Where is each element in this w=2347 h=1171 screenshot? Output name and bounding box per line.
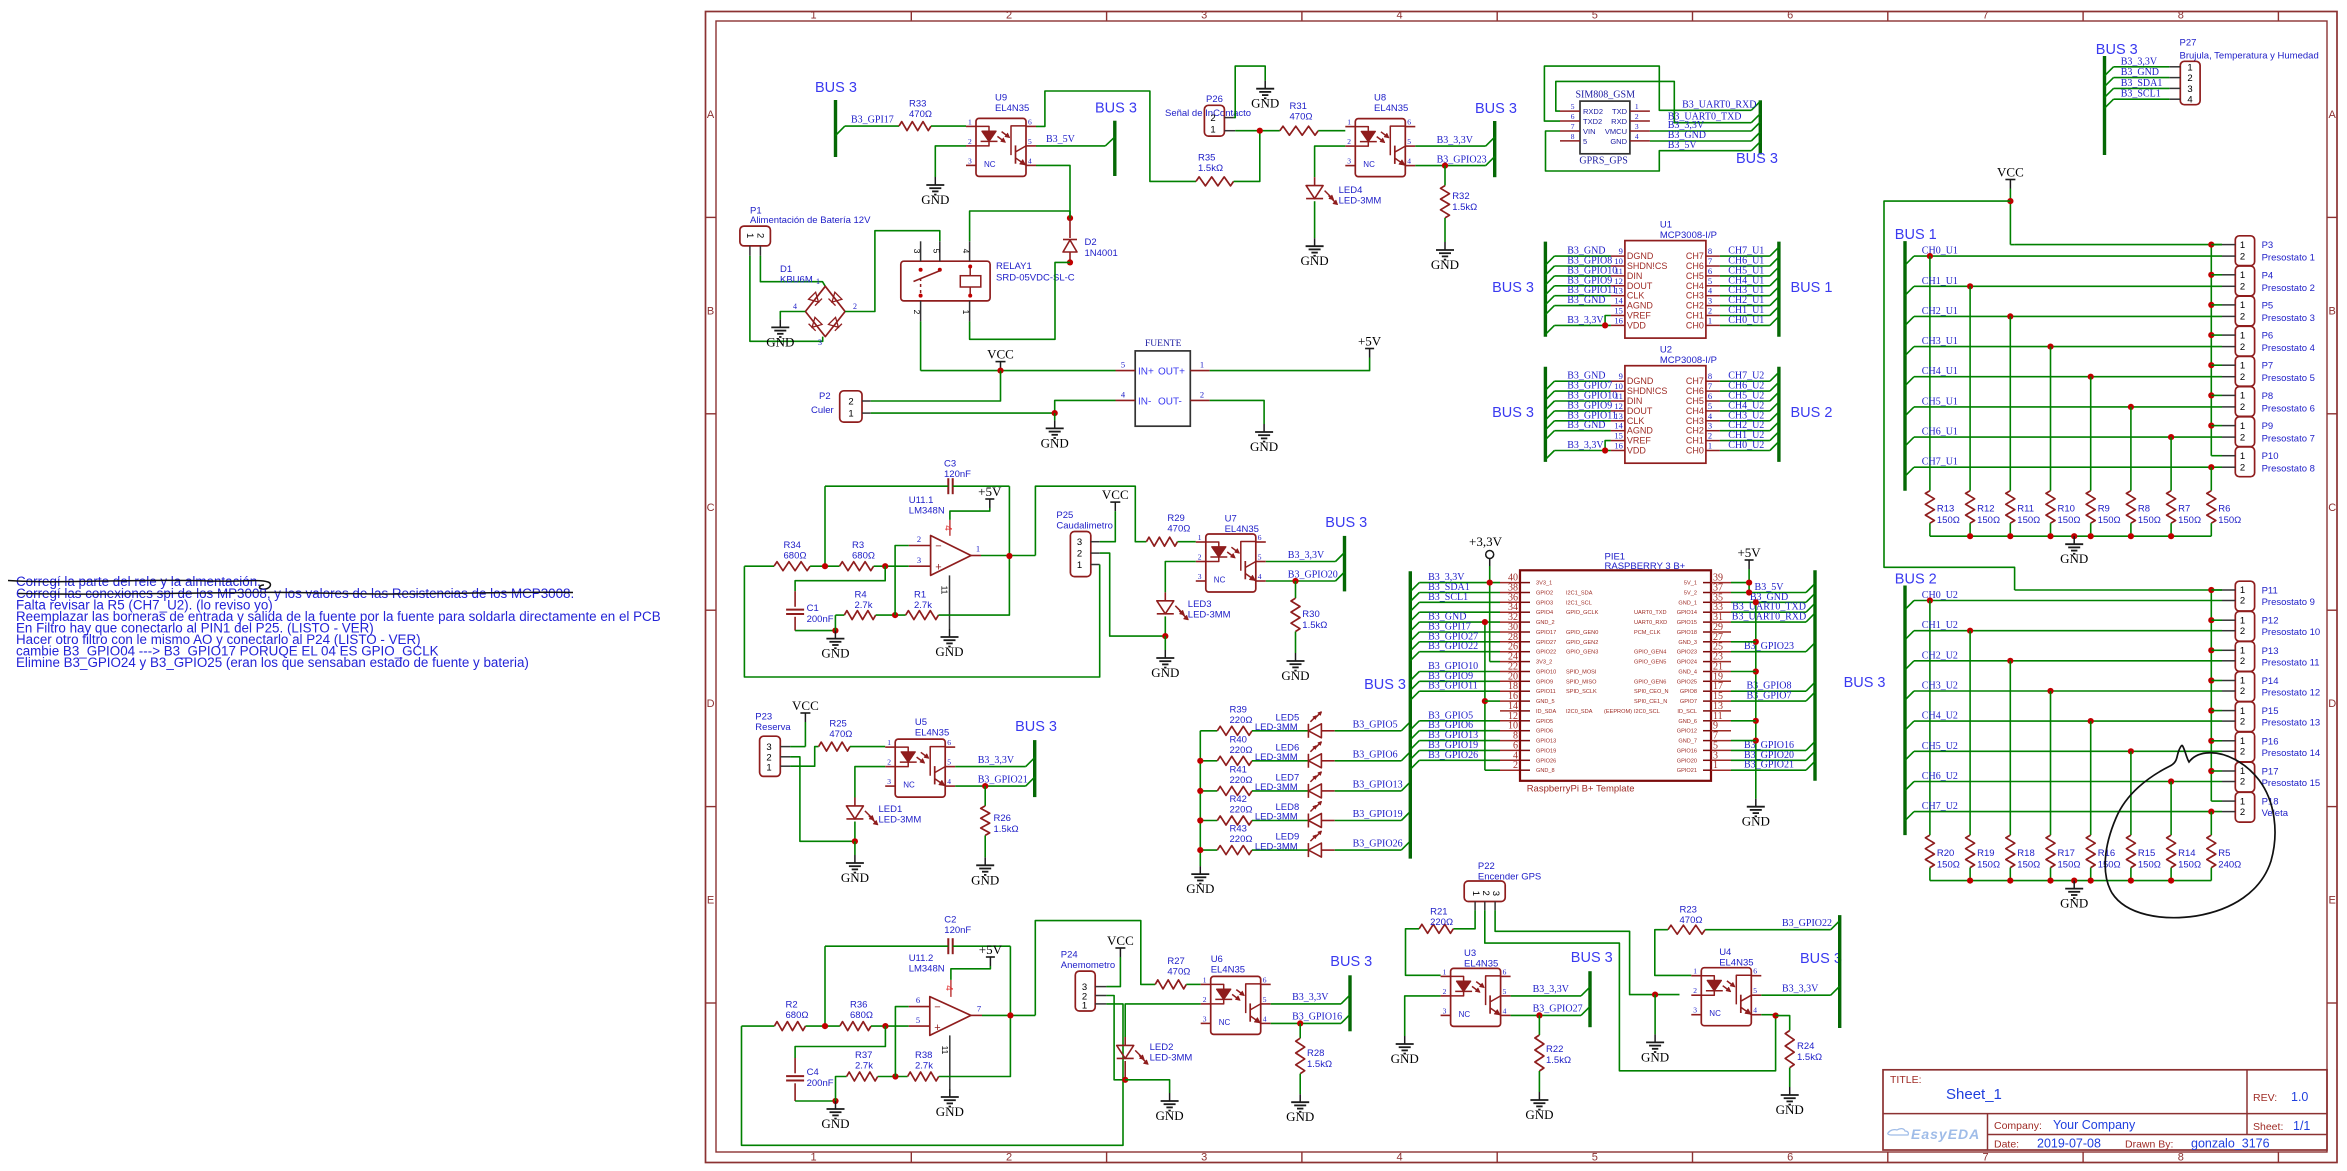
svg-text:CH0_U1: CH0_U1 [1728, 315, 1764, 326]
wire P22 pin1 to R21 [1453, 910, 1475, 929]
wire R27 to U6 pin1 [1186, 983, 1200, 985]
svg-text:CH2: CH2 [1686, 426, 1704, 436]
wire column 6 down [2170, 437, 2172, 491]
wire CH0_U1 row [1905, 256, 1914, 265]
wire pin1 stub row 3 [2211, 680, 2222, 682]
wire CH6_U2 to BUS 2 [1720, 390, 1770, 392]
svg-text:Presostato 5: Presostato 5 [2262, 373, 2315, 384]
svg-text:2: 2 [2240, 777, 2245, 788]
svg-text:P7: P7 [2262, 361, 2274, 372]
wire column 2 down [2009, 661, 2011, 835]
wire VREF elbow U1 [1605, 316, 1611, 326]
svg-text:DIN: DIN [1627, 271, 1643, 281]
svg-text:7: 7 [1982, 1152, 1988, 1164]
node junction CH5_U1 column [2128, 404, 2134, 410]
wire P24 pin1 to bottom loop [742, 1004, 1124, 1145]
wire B3_3,3V to U1 [1545, 325, 1554, 334]
svg-text:AGND: AGND [1627, 426, 1654, 436]
svg-text:VREF: VREF [1627, 436, 1652, 446]
svg-text:15: 15 [1614, 306, 1623, 316]
svg-text:NC: NC [1459, 1010, 1471, 1019]
svg-text:U9: U9 [995, 93, 1007, 104]
svg-text:2: 2 [1635, 112, 1639, 121]
svg-text:DGND: DGND [1627, 376, 1654, 386]
svg-text:R4: R4 [855, 590, 867, 601]
pin 29 PIE1 right [1703, 631, 1711, 633]
bus BUS 3 (left of U2) [1544, 367, 1547, 462]
wire U6 pin2 to LED2 [1125, 1004, 1201, 1037]
svg-text:B3_3,3V: B3_3,3V [1437, 135, 1474, 146]
svg-text:NC: NC [984, 160, 996, 169]
svg-text:GPIO_GEN0: GPIO_GEN0 [1566, 630, 1598, 636]
svg-text:5: 5 [1028, 137, 1032, 146]
svg-text:150Ω: 150Ω [2138, 860, 2161, 871]
wire +5V to opamp pin4 [950, 508, 990, 520]
svg-text:2: 2 [912, 310, 922, 315]
wire pin1 stub row 0 [2211, 589, 2222, 591]
ground below LED bank [1199, 866, 1201, 874]
svg-text:1.5kΩ: 1.5kΩ [1307, 1059, 1332, 1070]
svg-text:4: 4 [943, 985, 954, 991]
wire B3_GPI17 from bus to R33 [836, 126, 845, 135]
svg-text:ID_SCL: ID_SCL [1677, 709, 1697, 715]
svg-text:1: 1 [1635, 102, 1639, 111]
wire P22 pin2 rightward [1485, 910, 1776, 1071]
wire B3_GPIO7 to U2 [1545, 391, 1554, 400]
opamp U11.2 power pin 4 [950, 980, 952, 997]
wire B3_GND fan to PIE1 [1410, 622, 1419, 631]
svg-text:220Ω: 220Ω [1230, 775, 1253, 786]
pin 4 U2 [1706, 420, 1720, 422]
svg-text:B3_GND: B3_GND [1567, 295, 1605, 306]
node junction U8 pin4 / R32 [1442, 163, 1448, 169]
node junction CH2_U1 column [2007, 313, 2013, 319]
svg-text:3: 3 [1708, 296, 1712, 306]
svg-text:GPIO11: GPIO11 [1536, 689, 1556, 695]
wire R3 to opamp pin3 [874, 565, 909, 567]
svg-text:DOUT: DOUT [1627, 281, 1653, 291]
svg-text:+5V: +5V [979, 942, 1003, 957]
svg-text:Elimine B3_GPIO24 y B3_GPIO25: Elimine B3_GPIO24 y B3_GPIO25 (eran los … [16, 655, 529, 670]
svg-text:B3_3,3V: B3_3,3V [2121, 56, 2158, 67]
wire U3 pin2 to GND [1405, 996, 1441, 1036]
svg-text:8: 8 [2178, 10, 2184, 22]
svg-text:CH3_U2: CH3_U2 [1922, 681, 1958, 692]
node junction pin37 +5V [1746, 589, 1752, 595]
node junction bottom rail [2168, 533, 2174, 539]
wire B3_GPIO9 to U1 [1545, 286, 1554, 295]
svg-text:4: 4 [942, 525, 953, 531]
wire LED bank common rail [1199, 731, 1201, 866]
pin 30 PIE1 left [1500, 631, 1519, 633]
node junction CH6_U2 column [2168, 778, 2174, 784]
svg-text:RXD: RXD [1611, 117, 1627, 126]
svg-text:2: 2 [2240, 342, 2245, 353]
svg-text:150Ω: 150Ω [2058, 860, 2081, 871]
node junction R4/R1/pin2 [892, 612, 898, 618]
strikethrough scribble 2 [18, 592, 573, 594]
svg-text:1: 1 [2240, 615, 2245, 626]
svg-text:Culer: Culer [811, 405, 834, 416]
resistor R1 2.7k [906, 611, 939, 620]
svg-text:CH1: CH1 [1686, 436, 1704, 446]
wire CH1_U2 row [1905, 631, 1914, 640]
svg-text:D2: D2 [1085, 237, 1097, 248]
svg-text:SPID_MISO: SPID_MISO [1566, 679, 1597, 685]
svg-text:2: 2 [1708, 431, 1712, 441]
wire B3_3,3V U5 pin5 to bus [955, 766, 1025, 768]
svg-text:UART0_RXD: UART0_RXD [1634, 620, 1667, 626]
pin 16 U1 [1611, 324, 1625, 326]
svg-text:P8: P8 [2262, 391, 2274, 402]
resistor R14 150Ω [2167, 835, 2176, 868]
wire B3_GPIO10 to U1 [1545, 276, 1554, 285]
svg-text:1: 1 [1203, 975, 1207, 984]
svg-text:Company:: Company: [1994, 1120, 2042, 1132]
node junction bottom rail [2007, 878, 2013, 884]
svg-text:C4: C4 [807, 1067, 819, 1078]
svg-text:6: 6 [916, 995, 920, 1005]
svg-text:MCP3008-I/P: MCP3008-I/P [1660, 355, 1717, 366]
node junction P2 pin1 / GND [1052, 410, 1058, 416]
wire B3_GPIO23 PIE1 to bus [1731, 651, 1806, 653]
svg-text:Veleta: Veleta [2262, 808, 2289, 819]
wire column 0 down [1929, 256, 1931, 491]
strikethrough scribble 1 [8, 580, 270, 589]
svg-text:680Ω: 680Ω [850, 1010, 873, 1021]
node junction GND_5 [1482, 698, 1488, 704]
node junction pin1 chain top [2208, 242, 2214, 248]
svg-text:2: 2 [2240, 462, 2245, 473]
svg-text:8: 8 [1708, 371, 1712, 381]
svg-text:7: 7 [1708, 381, 1712, 391]
svg-text:1: 1 [1082, 1001, 1087, 1012]
svg-text:4: 4 [1397, 1152, 1403, 1164]
svg-text:GND: GND [1156, 1108, 1184, 1123]
ground below LED3 [1164, 636, 1166, 650]
svg-text:R43: R43 [1230, 824, 1247, 835]
svg-text:GPIO22: GPIO22 [1536, 650, 1556, 656]
wire CH1_U2 to BUS 2 [1720, 440, 1770, 442]
wire CH7_U1 to BUS 1 [1720, 255, 1770, 257]
pin 2 PIE1 left [1500, 769, 1519, 771]
svg-text:B3_GPIO22: B3_GPIO22 [1782, 918, 1832, 929]
node junction bottom rail [2088, 533, 2094, 539]
node junction pin1 chain [2208, 423, 2214, 429]
resistor R13 150Ω [1925, 491, 1934, 524]
svg-text:R20: R20 [1937, 848, 1954, 859]
svg-text:220Ω: 220Ω [1230, 715, 1253, 726]
wire junction up to opamp pin6 [895, 1007, 908, 1077]
svg-text:4: 4 [1708, 411, 1713, 421]
svg-text:150Ω: 150Ω [1937, 515, 1960, 526]
pin 14 U2 [1611, 430, 1625, 432]
svg-text:R8: R8 [2138, 504, 2150, 515]
wire column 1 down [1969, 631, 1971, 835]
svg-text:4: 4 [1708, 286, 1713, 296]
resistor R2 680ohm [774, 1022, 805, 1031]
pin 11 U2 [1611, 400, 1625, 402]
svg-text:1: 1 [2240, 451, 2245, 462]
svg-text:1: 1 [1347, 118, 1351, 127]
wire B3_GPIO7 PIE1 to bus [1731, 700, 1806, 702]
svg-text:220Ω: 220Ω [1230, 834, 1253, 845]
svg-text:4: 4 [1503, 1006, 1507, 1015]
svg-text:1.5kΩ: 1.5kΩ [1198, 163, 1223, 174]
pin 24 PIE1 left [1500, 661, 1519, 663]
wire B3_GND P27 [2105, 78, 2114, 87]
wire column 5 down [2130, 751, 2132, 835]
wire CH0_U1 to BUS 1 [1720, 324, 1770, 326]
wire B3_GPIO13 fan to PIE1 [1410, 741, 1419, 750]
wire pin 34 fan to PIE1 [1410, 612, 1419, 621]
svg-text:CH4: CH4 [1686, 406, 1704, 416]
pin 20 PIE1 left [1500, 680, 1519, 682]
connector P3 [2235, 236, 2254, 266]
node junction CH3_U1 column [2047, 344, 2053, 350]
svg-text:R3: R3 [852, 540, 864, 551]
pin 3 P27 stub [2169, 87, 2180, 89]
svg-text:GPIO17: GPIO17 [1536, 630, 1556, 636]
wire R37-R38 [878, 1076, 908, 1078]
pin 32 PIE1 left [1500, 621, 1519, 623]
wire VCC to P3 row [2010, 244, 2014, 246]
wire column 7 down [2210, 467, 2212, 491]
vcc rail wire to FUENTE IN+ [921, 370, 1116, 372]
svg-text:BUS 3: BUS 3 [1330, 954, 1372, 970]
wire B3_GPIO16 PIE1 to bus [1731, 749, 1806, 751]
svg-text:EasyEDA: EasyEDA [1911, 1126, 1980, 1142]
wire B3_SDA1 fan to PIE1 [1410, 593, 1419, 602]
svg-text:150Ω: 150Ω [2218, 515, 2241, 526]
wire B3_UART0_TXD PIE1 to bus [1731, 611, 1806, 613]
svg-text:P13: P13 [2262, 646, 2279, 657]
wire bottom rail [1930, 880, 2211, 882]
wire pin1 stub row 4 [2211, 364, 2222, 366]
svg-text:240Ω: 240Ω [2218, 860, 2241, 871]
connector P16 [2235, 732, 2254, 762]
ground below R22 [1538, 1092, 1540, 1100]
node junction LED rail [1197, 788, 1203, 794]
svg-text:B3_GPIO11: B3_GPIO11 [1428, 681, 1478, 692]
wire B3_GPIO19 fan to PIE1 [1410, 750, 1419, 759]
svg-text:GPIO7: GPIO7 [1680, 699, 1697, 705]
svg-text:CH4: CH4 [1686, 281, 1704, 291]
svg-text:1N4001: 1N4001 [1085, 248, 1118, 259]
svg-text:R30: R30 [1302, 609, 1319, 620]
svg-text:E: E [707, 895, 714, 907]
wire column 3 down [2050, 691, 2052, 835]
svg-text:150Ω: 150Ω [2178, 515, 2201, 526]
opamp pin 11 to GND [949, 575, 951, 629]
svg-text:+3,3V: +3,3V [1469, 534, 1503, 549]
svg-text:1: 1 [1443, 967, 1447, 976]
wire relay pin2 down to VCC rail [920, 321, 922, 370]
svg-text:4: 4 [1753, 1006, 1757, 1015]
svg-text:GND: GND [766, 334, 794, 349]
node junction pin1 chain [2208, 677, 2214, 683]
wire B3_GPIO8 to U1 [1545, 266, 1554, 275]
svg-text:BUS 3: BUS 3 [815, 80, 857, 96]
svg-text:6: 6 [1028, 117, 1032, 126]
svg-text:14: 14 [1614, 296, 1623, 306]
bus BUS 3 (right of PIE1) [1813, 570, 1816, 781]
power flag VCC (P25) [1114, 502, 1116, 511]
pin 33 PIE1 right [1703, 611, 1711, 613]
svg-text:6: 6 [1753, 967, 1757, 976]
wire B3_3,3V fan to PIE1 [1410, 583, 1419, 592]
wire pin1 chain vertical [2210, 245, 2212, 456]
power flag VCC (P23) [804, 713, 806, 722]
node junction pin1 chain [2208, 617, 2214, 623]
wire P23 pin3 to VCC [790, 746, 805, 748]
resistor R10 150Ω [2046, 491, 2055, 524]
svg-text:1: 1 [1693, 967, 1697, 976]
ground below R24 [1789, 1087, 1791, 1095]
svg-text:1: 1 [976, 544, 980, 554]
pin 1 PIE1 right [1703, 769, 1711, 771]
svg-text:C2: C2 [944, 915, 956, 926]
svg-text:LED-3MM: LED-3MM [1188, 610, 1231, 621]
svg-text:200nF: 200nF [807, 1078, 834, 1089]
svg-text:5: 5 [916, 1015, 920, 1025]
svg-text:2: 2 [754, 233, 765, 238]
svg-text:3: 3 [1203, 1014, 1207, 1023]
wire U9 pin2 to GND [935, 146, 966, 177]
svg-text:1.0: 1.0 [2291, 1090, 2308, 1104]
svg-text:R38: R38 [915, 1050, 932, 1061]
wire input row (left loop to R2) [742, 1025, 775, 1027]
connector P13 [2235, 642, 2254, 672]
wire R26 to GND [984, 835, 986, 857]
svg-text:GPIO21: GPIO21 [1677, 768, 1697, 774]
svg-text:SPID_SCLK: SPID_SCLK [1566, 689, 1597, 695]
svg-text:1: 1 [2240, 585, 2245, 596]
svg-text:D1: D1 [780, 264, 792, 275]
resistor R18 150Ω [2006, 835, 2015, 868]
pin 9 U1 [1611, 255, 1625, 257]
wire B3_SCL1 P27 [2105, 99, 2114, 108]
svg-text:1: 1 [1077, 560, 1082, 571]
node junction U9 pin4 / D2 / relay pin4 [1067, 215, 1073, 221]
svg-text:D: D [707, 698, 715, 710]
pin 4 U1 [1706, 295, 1720, 297]
svg-text:2: 2 [887, 758, 891, 767]
node junction pin1 chain [2208, 708, 2214, 714]
svg-text:1: 1 [887, 738, 891, 747]
svg-text:B3_3,3V: B3_3,3V [1288, 550, 1325, 561]
wire column 4 down [2090, 721, 2092, 835]
wire P22 pin3 rightward [1495, 910, 1679, 994]
node junction VCC trunk [2007, 198, 2013, 204]
svg-text:2: 2 [2240, 402, 2245, 413]
svg-text:1.5kΩ: 1.5kΩ [1302, 620, 1327, 631]
wire pin1 stub row 0 [2211, 244, 2222, 246]
pin 39 PIE1 right [1703, 582, 1711, 584]
svg-text:B3_UART0_RXD: B3_UART0_RXD [1732, 612, 1806, 623]
svg-text:1: 1 [2240, 706, 2245, 717]
svg-text:2: 2 [2240, 686, 2245, 697]
svg-text:CH7: CH7 [1686, 376, 1704, 386]
svg-text:3: 3 [1693, 1006, 1697, 1015]
svg-text:1: 1 [2240, 766, 2245, 777]
pin 15 U2 [1611, 440, 1625, 442]
svg-text:GND_6: GND_6 [1678, 719, 1697, 725]
wire CH2_U2 to BUS 2 [1720, 430, 1770, 432]
svg-text:BUS 3: BUS 3 [1095, 101, 1137, 117]
svg-text:2: 2 [1200, 389, 1204, 399]
node junction C4/R37/GND [832, 1098, 838, 1104]
wire R38 feedback to output [939, 1015, 1011, 1076]
svg-text:P23: P23 [755, 712, 772, 723]
svg-text:Presostato 1: Presostato 1 [2262, 253, 2315, 264]
wire CH2_U2 row [1905, 661, 1914, 670]
svg-text:GND_7: GND_7 [1678, 739, 1697, 745]
pin 9 PIE1 right [1703, 730, 1711, 732]
svg-text:B3_3,3V: B3_3,3V [1782, 984, 1819, 995]
resistor R30 1.5k [1295, 581, 1297, 598]
wire R24 to GND [1789, 1068, 1791, 1087]
wire R33 to U9 pin1 [931, 125, 966, 127]
wire pin1 chain vertical [2210, 590, 2212, 801]
svg-text:1: 1 [1198, 533, 1202, 542]
wire column 4 down [2090, 377, 2092, 491]
svg-text:GPIO14: GPIO14 [1677, 610, 1697, 616]
svg-text:11: 11 [940, 586, 950, 595]
svg-text:EL4N35: EL4N35 [1464, 959, 1498, 970]
svg-text:GPIO18: GPIO18 [1677, 630, 1697, 636]
svg-text:3: 3 [912, 249, 922, 254]
svg-text:4: 4 [1635, 132, 1639, 141]
svg-text:1/1: 1/1 [2293, 1119, 2310, 1133]
svg-text:GND: GND [1776, 1102, 1804, 1117]
wire CH3_U1 to BUS 1 [1720, 295, 1770, 297]
svg-text:BUS 3: BUS 3 [1475, 101, 1517, 117]
svg-text:470Ω: 470Ω [1167, 967, 1190, 978]
svg-text:VMCU: VMCU [1605, 127, 1627, 136]
ground below opamp U11.2 [949, 1089, 951, 1097]
resistor R32 [1444, 166, 1446, 186]
svg-text:GND: GND [935, 644, 963, 659]
svg-text:I2C0_SCL: I2C0_SCL [1634, 709, 1660, 715]
svg-text:CH0_U2: CH0_U2 [1728, 440, 1764, 451]
svg-text:5: 5 [1592, 10, 1598, 22]
wire R28 to GND [1299, 1074, 1301, 1095]
node junction GND chain row 21 [1753, 668, 1759, 674]
node junction VCC rail [997, 368, 1003, 374]
svg-text:5: 5 [1121, 360, 1125, 370]
svg-text:1: 1 [816, 277, 820, 286]
svg-text:6: 6 [1263, 975, 1267, 984]
wire RXD2 to B3_UART0_TXD [1556, 81, 1752, 122]
wire FUENTE OUT- to GND [1210, 400, 1265, 424]
wire bottom rail [1930, 535, 2211, 537]
resistor R22 1.5k [1538, 1015, 1540, 1035]
wire R22 to GND [1538, 1071, 1540, 1092]
wire R1 feedback to output [939, 556, 1010, 615]
svg-text:2: 2 [968, 137, 972, 146]
svg-text:GND_3: GND_3 [1678, 640, 1697, 646]
bus BUS 3 (SIM808) [1759, 100, 1762, 154]
pin 12 U1 [1611, 285, 1625, 287]
node junction bottom rail [2128, 878, 2134, 884]
led LED3 LED-3MM [1164, 592, 1166, 600]
node junction pin39 +5V [1746, 580, 1752, 586]
pin 37 PIE1 right [1703, 592, 1711, 594]
wire R31 to U8 pin1 [1318, 130, 1345, 132]
svg-text:R5: R5 [2218, 848, 2230, 859]
wire B3_GPIO5 to bus [1335, 730, 1402, 732]
